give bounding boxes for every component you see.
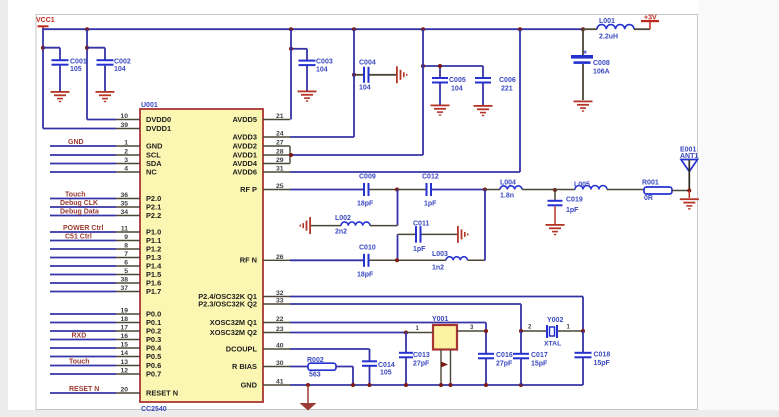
pin 21 AVDD5 (right): [232, 113, 290, 124]
svg-text:DCOUPL: DCOUPL: [226, 344, 258, 353]
svg-text:15: 15: [120, 342, 128, 349]
svg-text:C019: C019: [566, 197, 583, 204]
svg-text:24: 24: [276, 131, 284, 138]
ground (C002): [96, 91, 115, 102]
capacitor C009: [357, 174, 376, 208]
pin 26 RF N (right): [240, 254, 290, 265]
svg-text:1.8n: 1.8n: [500, 193, 514, 200]
wire P2.4/OSC32K Q1 net: [290, 297, 583, 332]
crystal Y002 (32.768kHz XTAL): [519, 317, 585, 348]
svg-text:R BIAS: R BIAS: [232, 362, 257, 371]
svg-text:C009: C009: [359, 174, 376, 181]
svg-text:19: 19: [120, 308, 128, 315]
capacitor C010: [357, 245, 376, 279]
capacitor C018: [575, 331, 611, 385]
svg-text:XOSC32M Q2: XOSC32M Q2: [210, 328, 257, 337]
pin 25 RF P (right): [240, 183, 290, 194]
pin 38 P1.6 (left): [50, 277, 161, 288]
pin 19 P0.0 (left): [50, 308, 161, 319]
wire P2.3/OSC32K Q2 net: [290, 304, 521, 331]
svg-text:VCC1: VCC1: [36, 17, 55, 24]
svg-text:38: 38: [120, 277, 128, 284]
svg-text:C016: C016: [496, 352, 513, 359]
svg-text:1pF: 1pF: [424, 201, 437, 208]
inductor L004: [485, 180, 555, 200]
svg-text:105: 105: [70, 66, 82, 73]
svg-text:DVDD0: DVDD0: [146, 115, 171, 124]
power port VCC1: [36, 17, 55, 30]
pin 39 DVDD1 (left): [116, 122, 171, 133]
svg-text:C004: C004: [359, 59, 376, 66]
svg-text:5: 5: [124, 268, 128, 275]
svg-text:L002: L002: [335, 215, 351, 222]
capacitor C013: [399, 333, 430, 386]
ground (C011, sideways right): [457, 226, 468, 243]
svg-text:29: 29: [276, 157, 284, 164]
pin 23 XOSC32M Q2 (right): [210, 326, 290, 337]
svg-text:12: 12: [120, 368, 128, 375]
svg-text:32: 32: [276, 290, 284, 297]
svg-text:18pF: 18pF: [357, 201, 374, 208]
svg-text:RXD: RXD: [72, 332, 87, 339]
wire RF P net: [290, 188, 487, 192]
wire AVDD5 riser: [290, 29, 292, 119]
svg-text:34: 34: [120, 209, 128, 216]
wire XOSC32M Q1 net: [290, 322, 486, 324]
capacitor C008 (polarized): [571, 29, 610, 100]
svg-text:23: 23: [276, 326, 284, 333]
ground (C008): [574, 101, 593, 112]
sheet margin shading: [0, 0, 8, 417]
capacitor C011: [398, 221, 458, 261]
svg-text:GND: GND: [146, 141, 163, 150]
svg-text:31: 31: [276, 166, 284, 173]
svg-text:RF N: RF N: [240, 256, 257, 265]
capacitor C016: [478, 323, 513, 386]
svg-text:104: 104: [316, 67, 328, 74]
svg-text:40: 40: [276, 343, 284, 350]
svg-text:221: 221: [501, 86, 513, 93]
svg-text:105: 105: [380, 370, 392, 377]
svg-text:C013: C013: [413, 352, 430, 359]
svg-text:18pF: 18pF: [357, 272, 374, 279]
svg-text:28: 28: [276, 149, 284, 156]
capacitor C012: [422, 174, 439, 208]
svg-text:L004: L004: [500, 180, 516, 187]
svg-text:C014: C014: [378, 362, 395, 369]
pin 9 P1.1 (left): [50, 233, 161, 245]
svg-text:1pF: 1pF: [413, 246, 426, 253]
pin 37 P1.7 (left): [50, 285, 161, 296]
pin 15 P0.4 (left): [50, 342, 162, 353]
ground (C006): [474, 105, 493, 116]
svg-text:18: 18: [120, 316, 128, 323]
svg-text:U001: U001: [141, 102, 158, 109]
svg-text:GND: GND: [241, 380, 258, 389]
svg-text:27pF: 27pF: [413, 361, 430, 368]
pin 5 P1.5 (left): [50, 268, 161, 279]
svg-text:P2.2: P2.2: [146, 211, 161, 220]
power port +3V: [634, 15, 659, 30]
pin 4 NC (left): [50, 166, 157, 177]
svg-text:+3V: +3V: [644, 15, 657, 22]
ground (L002, sideways left): [300, 217, 311, 234]
svg-text:10: 10: [120, 113, 128, 120]
pin 34 P2.2 (left): [50, 208, 161, 220]
svg-text:26: 26: [276, 254, 284, 261]
capacitor C002: [87, 48, 131, 91]
pin 40 DCOUPL (right): [226, 343, 290, 354]
svg-text:22: 22: [276, 316, 284, 323]
svg-text:39: 39: [120, 122, 128, 129]
power port GND arrow: [300, 385, 317, 411]
svg-text:NC: NC: [146, 167, 157, 176]
svg-text:AVDD6: AVDD6: [232, 167, 257, 176]
svg-text:XOSC32M Q1: XOSC32M Q1: [210, 318, 257, 327]
svg-text:104: 104: [114, 66, 126, 73]
pin 1 GND (left): [50, 139, 163, 151]
pin 14 P0.5 (left): [50, 350, 161, 361]
pin 36 P2.0 (left): [50, 191, 161, 203]
svg-text:27pF: 27pF: [496, 361, 513, 368]
inductor L002: [311, 190, 398, 236]
pin 8 P1.2 (left): [50, 243, 161, 254]
svg-text:33: 33: [276, 298, 284, 305]
svg-text:RESET N: RESET N: [69, 386, 99, 393]
svg-text:41: 41: [276, 379, 284, 386]
wire AVDD2/AVDD1/AVDD4 tie: [289, 29, 423, 163]
svg-text:35: 35: [120, 201, 128, 208]
pin 24 AVDD3 (right): [232, 131, 290, 142]
pin 18 P0.1 (left): [50, 316, 161, 327]
capacitor C006: [475, 66, 516, 105]
wire XOSC32M Q2 net: [290, 331, 408, 335]
svg-text:9: 9: [124, 234, 128, 241]
svg-text:C001: C001: [70, 59, 87, 66]
svg-text:R002: R002: [307, 357, 324, 364]
wire GND rail (bottom): [290, 383, 583, 387]
svg-text:104: 104: [359, 85, 371, 92]
pin 6 P1.4 (left): [50, 260, 162, 271]
svg-text:8: 8: [124, 243, 128, 250]
svg-text:L001: L001: [599, 18, 615, 25]
svg-text:30: 30: [276, 360, 284, 367]
svg-text:DVDD1: DVDD1: [146, 124, 171, 133]
pin 12 P0.7 (left): [50, 368, 161, 379]
resistor R002: [290, 357, 353, 385]
pin 13 P0.6 (left): [50, 358, 161, 370]
svg-text:L003: L003: [432, 251, 448, 258]
svg-text:21: 21: [276, 113, 284, 120]
pin 27 AVDD2 (right): [232, 140, 290, 151]
pin 22 XOSC32M Q1 (right): [210, 316, 290, 327]
pin 11 P1.0 (left): [50, 225, 161, 237]
pin 20 RESET N (left): [50, 386, 178, 398]
svg-text:563: 563: [309, 372, 321, 379]
svg-text:16: 16: [120, 333, 128, 340]
svg-text:15pF: 15pF: [531, 361, 548, 368]
inductor L003: [432, 251, 467, 272]
pin 3 SDA (left): [50, 157, 162, 168]
wire DVDD0 branch: [85, 29, 116, 119]
svg-text:C018: C018: [594, 352, 611, 359]
capacitor C017: [513, 331, 548, 385]
svg-text:Touch: Touch: [65, 191, 85, 198]
svg-text:AVDD2: AVDD2: [232, 141, 257, 150]
pin 35 P2.1 (left): [50, 200, 161, 212]
svg-text:7: 7: [124, 251, 128, 258]
pin 30 R BIAS (right): [232, 360, 290, 371]
ground (antenna): [680, 191, 699, 210]
svg-text:37: 37: [120, 285, 128, 292]
pin 31 AVDD6 (right): [232, 166, 290, 177]
svg-text:C006: C006: [499, 77, 516, 84]
pin 32 P2.4/OSC32K Q1 (right): [198, 290, 290, 301]
ground (C019): [546, 224, 565, 235]
svg-text:RESET N: RESET N: [146, 388, 178, 397]
svg-text:XTAL: XTAL: [544, 341, 561, 348]
pin 33 P2.3/OSC32K Q2 (right): [198, 298, 290, 309]
inductor L005: [555, 182, 644, 190]
svg-text:2n2: 2n2: [335, 229, 347, 236]
svg-text:AVDD5: AVDD5: [232, 115, 257, 124]
pin 7 P1.3 (left): [50, 251, 161, 262]
svg-text:RF P: RF P: [240, 185, 257, 194]
pin 2 SCL (left): [50, 149, 161, 160]
svg-text:106A: 106A: [593, 69, 610, 76]
svg-text:Touch: Touch: [69, 358, 89, 365]
svg-text:L005: L005: [574, 182, 590, 189]
svg-text:20: 20: [120, 387, 128, 394]
svg-text:11: 11: [121, 226, 128, 233]
svg-text:+: +: [583, 50, 587, 57]
antenna E001 ANT1: [680, 147, 698, 193]
svg-text:17: 17: [120, 325, 128, 332]
svg-text:Debug Data: Debug Data: [60, 208, 99, 215]
svg-text:GND: GND: [68, 139, 84, 146]
svg-text:1: 1: [124, 140, 128, 147]
svg-text:C51 Ctrl: C51 Ctrl: [65, 233, 92, 240]
svg-text:C012: C012: [422, 174, 439, 181]
svg-text:C008: C008: [593, 60, 610, 67]
capacitor C019: [548, 188, 583, 224]
wire DVDD1 branch (left vertical): [41, 28, 116, 128]
pin 10 DVDD0 (left): [116, 113, 171, 124]
capacitor C014: [290, 349, 395, 385]
inductor L001: [583, 18, 634, 41]
ground (C001): [51, 91, 70, 102]
wire AVDD3 riser: [290, 29, 354, 137]
crystal Y001 (32MHz): [406, 316, 486, 385]
svg-text:15pF: 15pF: [594, 360, 611, 367]
wire VCC top rail: [42, 27, 585, 31]
svg-text:1n2: 1n2: [432, 265, 444, 272]
svg-text:C017: C017: [531, 352, 548, 359]
svg-text:P0.5: P0.5: [146, 352, 161, 361]
wire AVDD6 riser: [290, 29, 520, 172]
ground (C005): [431, 105, 450, 116]
svg-text:AVDD3: AVDD3: [232, 132, 257, 141]
svg-text:C003: C003: [316, 59, 333, 66]
svg-text:2.2uH: 2.2uH: [599, 34, 618, 41]
svg-text:P0.7: P0.7: [146, 369, 161, 378]
svg-text:104: 104: [451, 86, 463, 93]
svg-text:C010: C010: [359, 245, 376, 252]
svg-text:POWER Ctrl: POWER Ctrl: [63, 225, 104, 232]
capacitor C001: [43, 48, 87, 91]
capacitor C003: [289, 47, 333, 91]
svg-text:0R: 0R: [644, 195, 653, 202]
svg-text:Y002: Y002: [547, 317, 563, 324]
svg-text:C011: C011: [413, 221, 429, 228]
svg-text:14: 14: [120, 350, 128, 357]
svg-text:R001: R001: [642, 180, 659, 187]
pin 29 AVDD4 (right): [232, 157, 290, 168]
svg-text:C002: C002: [114, 59, 131, 66]
capacitor C005: [421, 64, 483, 105]
svg-text:Debug CLK: Debug CLK: [60, 200, 98, 207]
ground (C003): [298, 91, 317, 102]
svg-text:4: 4: [124, 166, 128, 173]
capacitor C004: [352, 59, 396, 91]
svg-text:CC2540: CC2540: [141, 406, 167, 413]
pin 41 GND (right): [241, 379, 290, 390]
svg-text:2: 2: [124, 149, 128, 156]
resistor R001: [642, 180, 688, 203]
svg-text:25: 25: [276, 183, 284, 190]
svg-text:6: 6: [124, 260, 128, 267]
pin 28 AVDD1 (right): [232, 149, 290, 160]
svg-text:P1.7: P1.7: [146, 287, 161, 296]
pin 17 P0.2 (left): [50, 325, 161, 336]
svg-text:3: 3: [124, 157, 128, 164]
svg-text:C005: C005: [449, 77, 466, 84]
svg-text:1pF: 1pF: [566, 207, 579, 214]
svg-text:36: 36: [120, 192, 128, 199]
svg-text:Y001: Y001: [432, 316, 448, 323]
pin 16 P0.3 (left): [50, 332, 161, 344]
op-amp/IC U001 CC2540: [140, 102, 263, 413]
svg-text:P2.3/OSC32K Q2: P2.3/OSC32K Q2: [198, 299, 257, 308]
svg-text:27: 27: [276, 140, 284, 147]
ground (C004, sideways): [396, 66, 407, 83]
wire RF N net: [290, 190, 485, 263]
svg-text:13: 13: [120, 359, 128, 366]
